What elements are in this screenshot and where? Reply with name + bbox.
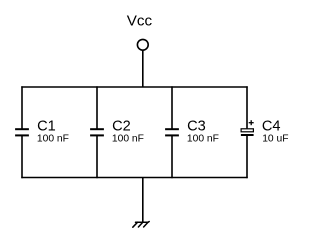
terminal circle Vcc — [137, 39, 148, 50]
wire C2 top — [96, 86, 98, 129]
svg-text:100 nF: 100 nF — [37, 134, 69, 145]
wire C2 bottom — [96, 135, 98, 178]
svg-text:C2: C2 — [112, 118, 131, 134]
capacitor C1 — [15, 129, 29, 135]
svg-text:10 uF: 10 uF — [262, 134, 288, 145]
svg-text:100 nF: 100 nF — [187, 134, 219, 145]
wire top rail — [21, 86, 247, 88]
capacitor C3 — [165, 129, 179, 135]
wire Vcc to top rail — [142, 51, 144, 87]
wire bottom rail — [21, 177, 247, 179]
wire C4 top — [246, 86, 248, 128]
svg-text:C4: C4 — [262, 118, 281, 134]
ground (chassis) — [133, 222, 149, 228]
capacitor C2 — [90, 129, 104, 135]
svg-text:Vcc: Vcc — [127, 12, 153, 29]
wire bottom rail to ground — [142, 178, 144, 222]
svg-text:100 nF: 100 nF — [112, 134, 144, 145]
wire C3 top — [171, 86, 173, 129]
wire C1 top — [21, 86, 23, 129]
svg-text:C1: C1 — [37, 118, 56, 134]
wire C3 bottom — [171, 135, 173, 178]
wire C4 bottom — [246, 136, 248, 178]
svg-text:C3: C3 — [187, 118, 206, 134]
polarity plus C4 — [249, 120, 254, 125]
capacitor C4 (electrolytic) — [241, 129, 254, 135]
wire C1 bottom — [21, 135, 23, 178]
